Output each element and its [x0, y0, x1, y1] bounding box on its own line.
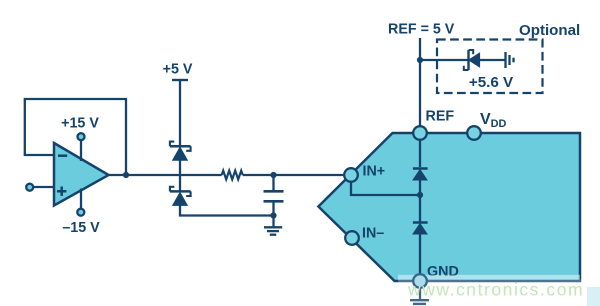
diode D3 (ESD to REF): [413, 169, 428, 181]
junction: output node: [123, 172, 129, 178]
svg-text:IN–: IN–: [362, 226, 384, 242]
op-amp minus symbol: [58, 154, 67, 157]
wire: non-inverting input: [33, 186, 54, 188]
wire: op-amp feedback loop: [25, 99, 126, 175]
terminal: + input circle: [26, 184, 33, 191]
capacitor C1: [264, 190, 284, 193]
wire: GND stub: [419, 288, 421, 300]
svg-text:+15 V: +15 V: [61, 116, 99, 132]
watermark lower mute band: [398, 280, 600, 306]
ADC internal: REF to D3: [419, 140, 421, 167]
junction: IN+ internal node: [417, 192, 423, 198]
wire: op-amp output to ADC IN+: [108, 174, 222, 176]
wire: stub to ground: [272, 216, 274, 228]
wire: IN+ to internal node: [351, 181, 420, 195]
op-amp U1: [54, 143, 109, 206]
pin IN-: [345, 231, 359, 245]
pin IN+: [344, 168, 358, 182]
wire: +5V down to D1: [179, 80, 181, 146]
zener diode D2 (clamp to ground): [170, 187, 191, 206]
resistor R1: [222, 171, 243, 180]
wire: +15V stub: [80, 141, 82, 162]
pin GND: [413, 274, 427, 288]
supply bar: [172, 79, 188, 81]
terminal: +15V circle: [78, 133, 85, 140]
svg-text:Optional: Optional: [519, 22, 580, 39]
watermark corner block: [587, 287, 600, 306]
op-amp plus symbol: [57, 187, 66, 196]
ground symbol (filter): [264, 227, 282, 234]
dashed optional box: [437, 40, 543, 94]
wire: REF vertical: [419, 38, 421, 126]
ground symbol (sideways): [506, 52, 514, 68]
wire: to zener D5: [420, 59, 469, 61]
wire: D5 to chassis ground: [480, 59, 505, 61]
svg-text:+5.6 V: +5.6 V: [469, 74, 514, 91]
wire: cap to ground rail: [272, 201, 274, 215]
junction: ground rail node: [270, 212, 276, 218]
wire: node to cap: [272, 175, 274, 191]
svg-text:+5 V: +5 V: [163, 62, 193, 78]
zener diode D5 (+5.6 V): [464, 50, 480, 70]
diode D4 (ESD to GND): [413, 223, 428, 235]
wire: -15V stub: [80, 189, 82, 209]
junction: REF tap: [417, 57, 423, 63]
zener diode D1 (clamp to +5V): [170, 142, 191, 161]
wire: D2 to ground rail: [180, 205, 274, 215]
svg-text:www.cntronics.com: www.cntronics.com: [407, 280, 584, 300]
svg-text:REF = 5 V: REF = 5 V: [388, 22, 455, 38]
wire: D4 to GND pin: [419, 234, 421, 274]
ADC body U2 (pentagon): [318, 133, 580, 281]
ground symbol (ADC): [410, 300, 429, 306]
pin REF: [413, 126, 427, 140]
pin VDD: [467, 126, 481, 140]
svg-text:IN+: IN+: [363, 163, 386, 179]
watermark highlight band: [398, 275, 580, 280]
terminal: -15V circle: [77, 209, 84, 216]
svg-text:–15 V: –15 V: [62, 220, 100, 236]
svg-text:REF: REF: [426, 109, 455, 125]
wire: D3 to node: [419, 180, 421, 223]
junction: RC node: [270, 172, 276, 178]
wire: D1 to signal: [179, 160, 181, 191]
